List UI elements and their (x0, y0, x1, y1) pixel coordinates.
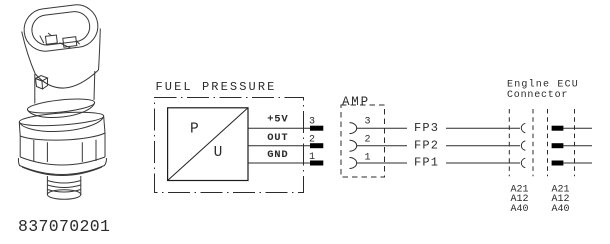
svg-text:P: P (190, 121, 199, 137)
svg-text:A40: A40 (552, 204, 570, 215)
sensor element symbol box U1 (168, 108, 248, 181)
svg-text:+5V: +5V (267, 114, 288, 126)
label OUT (267, 132, 288, 144)
pressure sensor pictorial: hex chamfer front wall (19, 116, 105, 136)
wire stub from pin A21 (563, 127, 592, 129)
pressure sensor pictorial: connector shell bottom rim (35, 70, 98, 88)
ECU connector housing dashed line 3 (547, 109, 549, 176)
AMP connector box (dashed) (341, 105, 385, 177)
pin label A21 (right column) (552, 185, 570, 196)
wire FP1 to ECU (446, 162, 520, 164)
net label FP1 (414, 156, 439, 170)
wire end terminal pin 3 (solid bar) (310, 126, 323, 131)
pressure sensor pictorial: inner connector oval (30, 10, 91, 47)
pressure sensor pictorial: terminal slots inside connector (40, 29, 80, 52)
pressure sensor pictorial: threaded stud (47, 176, 80, 199)
net label FP2 (414, 138, 439, 152)
ECU connector housing dashed line 1 (508, 109, 510, 176)
pressure sensor pictorial: collar disc front wall (27, 103, 94, 118)
pin label A12 (left column) (511, 194, 529, 205)
sensor boundary box (chain line) (155, 98, 304, 193)
svg-text:FP3: FP3 (414, 121, 439, 135)
label Connector (507, 90, 568, 101)
pin number 3 at sensor (309, 116, 315, 127)
pressure sensor pictorial: hex nut facets (20, 133, 105, 162)
svg-text:837070201: 837070201 (18, 217, 110, 236)
pin label A40 (left column) (511, 204, 529, 215)
pin label A21 (left column) (511, 185, 529, 196)
ECU socket contact FP2 (521, 141, 525, 151)
svg-text:OUT: OUT (267, 132, 288, 144)
pin number 2 at sensor (309, 135, 315, 146)
pin label A12 (right column) (552, 194, 570, 205)
svg-text:FP1: FP1 (414, 156, 439, 170)
svg-text:Englne ECU: Englne ECU (507, 78, 579, 90)
pressure sensor pictorial: hex top front edge (20, 133, 105, 140)
svg-text:FUEL PRESSURE: FUEL PRESSURE (156, 80, 277, 94)
label +5V (267, 114, 288, 126)
wire FP3 segment from AMP (357, 127, 407, 129)
AMP socket contact 2 (350, 140, 357, 151)
AMP pin number 1 (365, 152, 371, 163)
label FUEL PRESSURE (156, 80, 277, 94)
svg-text:AMP: AMP (342, 95, 370, 109)
label AMP (342, 95, 370, 109)
AMP pin number 3 (365, 116, 371, 127)
svg-text:GND: GND (267, 149, 288, 161)
wire GND from sensor to pin 1 (248, 162, 310, 164)
label P (190, 121, 199, 137)
pin label A40 (right column) (552, 204, 570, 215)
AMP socket contact 3 (350, 123, 357, 134)
svg-text:FP2: FP2 (414, 138, 439, 152)
label U (214, 145, 223, 161)
svg-text:3: 3 (365, 116, 371, 127)
pressure sensor pictorial: connector shell body sides (22, 29, 101, 75)
svg-text:Connector: Connector (507, 90, 568, 101)
wire stub from pin A12 (563, 145, 592, 147)
ECU connector housing dashed line 2 (532, 109, 534, 176)
ECU pin A40 (solid bar) (552, 161, 564, 166)
svg-text:1: 1 (365, 152, 371, 163)
wire FP2 segment from AMP (357, 145, 407, 147)
wire stub from pin A40 (563, 162, 592, 164)
part number 837070201 (18, 217, 110, 236)
label GND (267, 149, 288, 161)
wire FP2 to ECU (446, 145, 520, 147)
pressure sensor pictorial: hex chamfer top rim (19, 110, 104, 128)
pressure sensor pictorial: collar disc top rim (27, 96, 95, 115)
pin number 1 at sensor (309, 152, 315, 163)
ECU socket contact FP3 (521, 123, 525, 133)
svg-text:2: 2 (365, 135, 371, 146)
pressure sensor pictorial: sensor body cylinder (35, 71, 95, 104)
wire OUT from sensor to pin 2 (248, 145, 310, 147)
pressure sensor pictorial: latch tab (36, 76, 48, 90)
ECU socket contact FP1 (521, 158, 525, 168)
pressure sensor pictorial: flange washer (18, 157, 106, 176)
net label FP3 (414, 121, 439, 135)
svg-text:U: U (214, 145, 223, 161)
svg-text:3: 3 (309, 116, 315, 127)
wire FP1 segment from AMP (357, 162, 407, 164)
ECU pin A21 (solid bar) (552, 126, 564, 131)
AMP socket contact 1 (350, 158, 357, 169)
pressure sensor pictorial: outer connector shell oval (22, 2, 101, 53)
wire FP3 to ECU (446, 127, 520, 129)
wire end terminal pin 2 (solid bar) (310, 143, 323, 148)
label Engine ECU (507, 78, 579, 90)
wire +5V from sensor to pin 3 (248, 127, 310, 129)
wire end terminal pin 1 (solid bar) (310, 161, 323, 166)
svg-text:A40: A40 (511, 204, 529, 215)
ECU connector housing dashed line 4 (574, 109, 576, 176)
sensor element diagonal (168, 108, 248, 181)
AMP pin number 2 (365, 135, 371, 146)
ECU pin A12 (solid bar) (552, 143, 564, 148)
